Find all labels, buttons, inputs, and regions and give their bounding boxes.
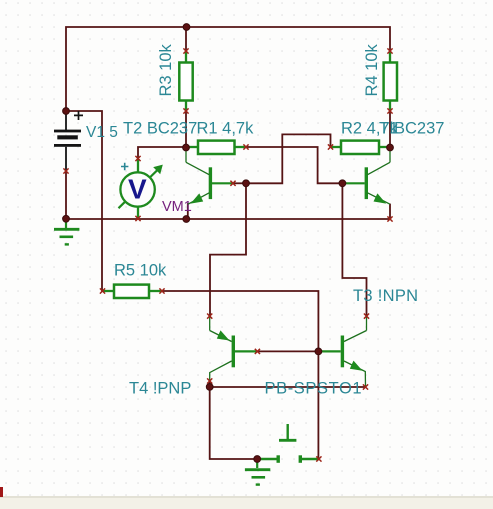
transistor T4 (!PNP, mirrored)	[210, 317, 257, 381]
wire battery plus to R5 drop	[66, 111, 102, 291]
wire R5 right to trigger base node	[162, 291, 318, 351]
junction switch / ground node	[254, 456, 261, 463]
wire R1 right cross-couple to T1 base	[246, 147, 342, 183]
junction battery minus / ground rail node	[63, 215, 70, 222]
pin marker R4 top	[387, 48, 392, 53]
svg-text:V: V	[128, 173, 147, 204]
pin marker T3 emitter	[363, 384, 368, 389]
junction T2 emitter on ground rail	[183, 216, 190, 223]
pin marker R5 left	[100, 288, 105, 293]
pin marker T4 collector	[207, 378, 212, 383]
svg-text:V1 5: V1 5	[86, 124, 118, 141]
resistor R4	[384, 52, 397, 111]
svg-text:VM1: VM1	[162, 199, 192, 215]
junction T2 base node	[243, 180, 250, 187]
wire R3 top feed	[185, 27, 187, 51]
wire battery minus lead	[65, 171, 67, 219]
wire R3 bottom to node A	[185, 111, 187, 148]
transistor T2 (BC237 NPN, mirrored)	[186, 148, 233, 204]
battery V1	[54, 111, 83, 171]
svg-text:R3 10k: R3 10k	[157, 43, 175, 96]
pin marker T4 base	[255, 349, 260, 354]
pin marker T3 collector	[364, 314, 369, 319]
pin marker R1 right	[243, 144, 248, 149]
pin marker T4 emitter	[207, 314, 212, 319]
wire R4 bottom to node B	[389, 111, 391, 148]
scrollbar red mark bottom-left	[0, 487, 3, 497]
pin marker PB right contact	[316, 456, 321, 461]
svg-text:BC237: BC237	[394, 120, 444, 138]
wire T2 base cross-couple to R2 left	[246, 134, 331, 183]
pin marker R4 bottom	[387, 108, 392, 113]
wire top rail V+	[66, 27, 390, 111]
resistor R3	[179, 52, 192, 111]
pin marker R3 top	[183, 48, 188, 53]
bottom window band	[0, 496, 493, 509]
junction battery plus node	[63, 108, 70, 115]
junction node A (T2 collector / R3 / R1 / VM1)	[183, 144, 190, 151]
pushbutton PB-SPSTO1	[260, 424, 320, 463]
wire T4 base to trigger node	[257, 350, 318, 352]
pin marker T1 emitter	[387, 216, 392, 221]
resistor R2	[331, 141, 390, 154]
svg-text:R1 4,7k: R1 4,7k	[197, 120, 255, 138]
wire T1 base node down to T3 collector	[342, 183, 366, 316]
transistor T3 (!NPN)	[318, 317, 366, 387]
ground under battery	[54, 219, 79, 244]
pin marker VM1 minus	[135, 216, 140, 221]
wire T2 base node down to T4 emitter	[210, 183, 246, 316]
ground under pushbutton	[245, 459, 270, 485]
svg-text:T3 !NPN: T3 !NPN	[353, 287, 418, 305]
svg-text:T2 BC237: T2 BC237	[123, 120, 197, 138]
wire T2 base stub to junction	[233, 182, 246, 184]
resistor R5	[103, 285, 162, 298]
svg-text:R4 10k: R4 10k	[363, 43, 381, 96]
junction top rail / R3 tap	[183, 24, 190, 31]
pin marker V1 minus	[63, 168, 68, 173]
pin marker T2 base	[230, 181, 235, 186]
wire T1 emitter to rail end	[389, 205, 391, 220]
svg-text:R5 10k: R5 10k	[114, 262, 167, 280]
junction T1 base node	[339, 180, 346, 187]
junction T4 collector node	[206, 384, 213, 391]
pin marker R5 right	[159, 288, 164, 293]
wire trigger base node down to switch	[317, 351, 319, 459]
wire T4 collector to dot	[209, 381, 211, 387]
voltmeter VM1	[119, 159, 163, 218]
pin marker R3 bottom	[183, 108, 188, 113]
svg-text:T4 !PNP: T4 !PNP	[129, 379, 191, 397]
wire T4 node down to switch/ground	[210, 387, 258, 459]
junction trigger base node (T3/T4 bases)	[315, 348, 322, 355]
pin marker VM1 plus	[135, 156, 140, 161]
resistor R1	[187, 141, 246, 154]
wire voltmeter plus to node A	[138, 147, 186, 159]
wire emitter ground rail	[66, 218, 390, 220]
transistor T1 (BC237 NPN)	[342, 148, 390, 204]
wire T4/T3 emitter row	[210, 386, 366, 388]
pin marker R2 left	[328, 144, 333, 149]
wire T2 emitter to rail	[187, 204, 189, 219]
junction node B (T1 collector / R4 / R2)	[387, 144, 394, 151]
svg-text:PB-SPSTO1: PB-SPSTO1	[265, 379, 363, 397]
